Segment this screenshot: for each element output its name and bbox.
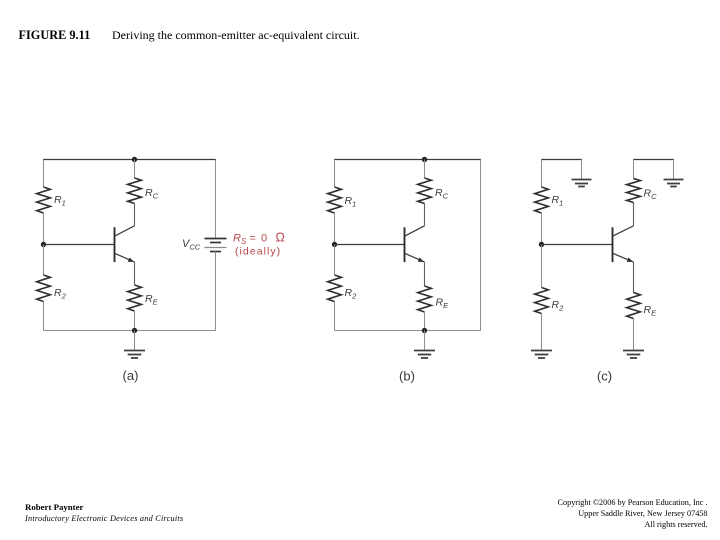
resistor R2 (b) [328,275,342,302]
wire: (a) top rail [43,159,216,161]
resistor RC (b) [418,178,432,204]
footer author name [25,502,83,512]
svg-text:(ideally): (ideally) [235,246,281,258]
figure title caption [112,28,360,43]
svg-text:(c): (c) [597,369,612,384]
node: (c) base junction dot [539,242,544,247]
wire: (c) R2 top lead [541,245,543,288]
wire: (a) R1 bottom lead [43,213,45,245]
ground (a) [134,331,136,351]
wire: (c) RC top wire [633,159,674,161]
resistor R2 (a) [37,275,51,302]
transistor Q (c) [612,227,614,262]
ground (b) [424,331,426,351]
wire: (a) RE bottom lead [134,311,136,331]
wire: (b) collector vertical [424,204,426,226]
svg-text:R2: R2 [552,299,565,312]
wire: (b) R1 bottom lead [334,213,336,245]
transistor Q (b) [404,227,406,262]
battery VCC plate 4 [210,251,221,253]
resistor RE (b) [418,286,432,312]
svg-text:R2: R2 [54,287,67,300]
resistor RE (c) [627,293,641,319]
wire: (b) R2 top lead [334,245,336,276]
ground (c) R1 top [572,179,592,181]
wire: (a) emitter vertical [134,262,136,285]
wire: (b) emitter vertical [424,262,426,286]
node: (a) RC top junction dot [132,157,137,162]
node: (a) emitter-ground junction dot [132,328,137,333]
figure title bold [19,28,91,43]
battery VCC plate 1 [205,238,227,240]
wire: (c) R1 top lead [541,160,543,188]
svg-text:RE: RE [145,293,159,306]
footer book title [25,514,183,523]
wire: (c) collector vertical [633,203,635,226]
wire: (c) RC ground stub [673,160,675,180]
node: (b) emitter-ground junction dot [422,328,427,333]
wire: (b) R2 bottom lead [334,302,336,331]
wire: (a) right vertical below battery [215,252,217,331]
svg-text:RE: RE [436,297,450,310]
wire: (b) left vertical upper [334,160,336,188]
wire: (c) emitter vertical [633,262,635,292]
wire: (b) RE bottom lead [424,312,426,331]
node: (a) base junction dot [41,242,46,247]
wire: (a) collector vertical [134,204,136,226]
wire: (c) RC top lead [633,160,635,179]
resistor R1 (a) [37,187,51,213]
resistor R2 (c) [535,288,549,314]
transistor Q (a) [114,227,116,262]
wire: (a) R2 top lead [43,245,45,276]
wire: (a) RC top lead [134,160,136,179]
svg-text:R1: R1 [552,194,564,207]
battery VCC plate 3 [205,247,227,249]
resistor RE (a) [128,285,142,311]
wire: (c) R1 bottom lead [541,213,543,245]
wire: (c) base wire [542,244,613,246]
wire: (b) base wire [335,244,405,246]
wire: (c) R1 top wire [541,159,582,161]
wire: (a) right vertical above battery [215,160,217,239]
svg-text:VCC: VCC [182,238,201,251]
svg-text:R1: R1 [345,195,357,208]
resistor RC (c) [627,179,641,203]
node: (b) base junction dot [332,242,337,247]
resistor RC (a) [128,178,142,204]
battery VCC plate 2 [210,242,221,244]
wire: (b) bottom rail [335,330,481,332]
node: (b) RC top junction dot [422,157,427,162]
svg-text:(b): (b) [399,369,415,384]
wire: (a) bottom rail [44,330,216,332]
wire: (a) base wire [44,244,115,246]
wire: (a) R2 bottom lead [43,302,45,331]
svg-text:RS=0Ω: RS=0Ω [233,231,285,246]
wire: (a) left vertical upper [43,160,45,188]
svg-text:R1: R1 [54,194,66,207]
svg-text:R2: R2 [345,287,358,300]
ground (c) RC top [664,179,684,181]
svg-text:RE: RE [644,304,658,317]
footer copyright block [558,497,708,530]
wire: (b) right vertical shorted source [480,160,482,331]
svg-text:RC: RC [644,188,658,201]
wire: (c) R1 ground stub [581,160,583,180]
wire+ground: (c) RE bottom [633,319,635,351]
svg-text:RC: RC [435,187,449,200]
svg-text:RC: RC [145,187,159,200]
wire: (b) top rail [334,159,481,161]
resistor R1 (b) [328,187,342,213]
wire+ground: (c) R2 bottom [541,314,543,351]
resistor R1 (c) [535,187,549,213]
wire: (b) RC top lead [424,160,426,179]
svg-text:(a): (a) [123,368,139,383]
